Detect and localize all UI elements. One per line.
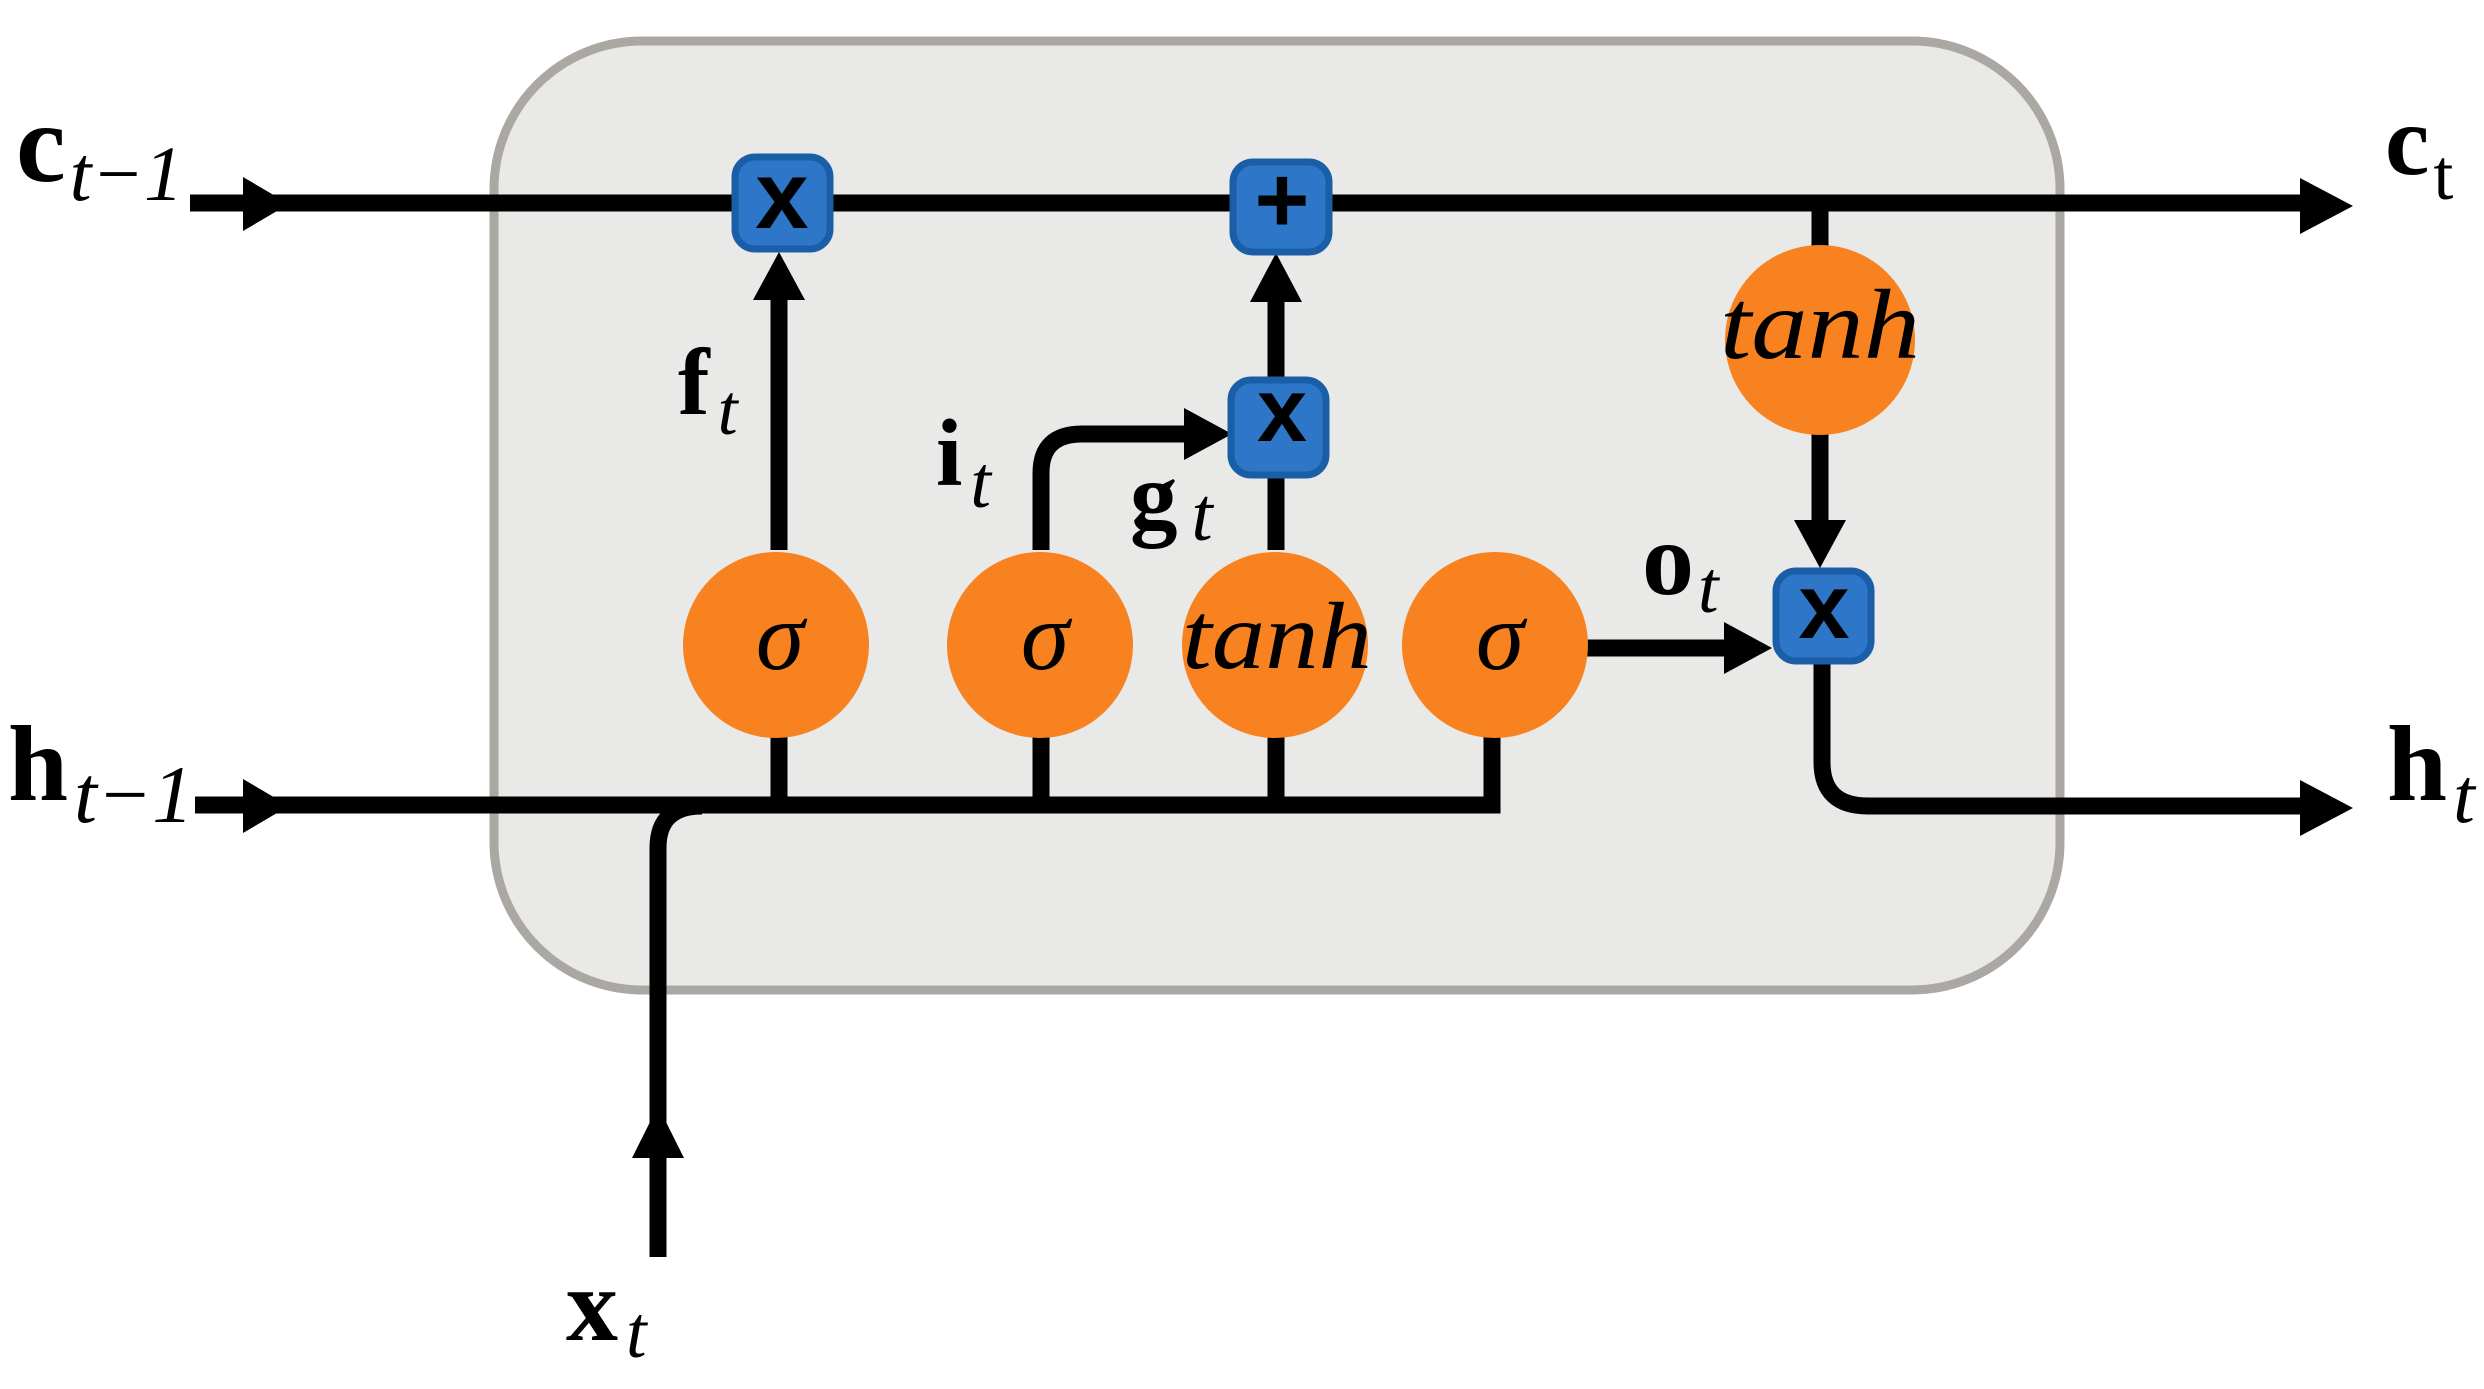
sigma gate 2 (input)	[947, 552, 1133, 738]
svg-text:tanh: tanh	[1720, 269, 1920, 380]
arrowhead c_t output	[2300, 178, 2353, 234]
wire big tanh down to X4	[1812, 433, 1829, 521]
wire X4 down, curve right, h_t output	[1822, 661, 2306, 806]
wire X2 up to plus	[1268, 302, 1285, 380]
svg-text:σ: σ	[756, 583, 808, 691]
tanh gate (candidate)	[1182, 552, 1372, 738]
arrowhead x_t (pointing up)	[632, 1106, 684, 1158]
arrowhead o_t into X4	[1724, 622, 1772, 674]
arrowhead f_t into X1	[753, 252, 805, 300]
multiply gate X2 (input)	[1231, 361, 1326, 475]
wire h (hidden state line, bottom)	[195, 736, 1492, 805]
svg-text:x: x	[755, 142, 808, 249]
svg-text:x: x	[1798, 556, 1849, 658]
svg-text:σ: σ	[1021, 583, 1073, 691]
svg-text:tanh: tanh	[1182, 583, 1372, 689]
LSTM cell body (rounded rect)	[494, 41, 2060, 990]
wire sigma2 to h line	[1033, 736, 1050, 806]
svg-text:x: x	[1257, 361, 1307, 461]
wire g_t (tanh gate up to X2)	[1268, 477, 1285, 550]
arrowhead c input	[243, 177, 289, 231]
wire o_t (sigma4 right to X4)	[1586, 640, 1724, 657]
wire tanh gate to h line	[1268, 736, 1285, 806]
svg-text:+: +	[1255, 147, 1310, 252]
sigma gate 3 (output)	[1402, 552, 1588, 738]
wire c line down to big tanh	[1812, 203, 1829, 252]
wire x_t input (curves into h line)	[658, 806, 702, 1257]
wire sigma1 to h line	[771, 736, 788, 806]
svg-text:σ: σ	[1476, 583, 1528, 691]
sigma gate 1 (forget)	[683, 552, 869, 738]
arrowhead into plus	[1250, 253, 1302, 302]
wire i_t (sigma2 up, curve right into X2)	[1041, 434, 1186, 550]
wire f_t (sigma1 up to X1)	[771, 292, 788, 550]
add gate PLUS	[1233, 147, 1329, 252]
arrowhead i_t into X2	[1184, 408, 1232, 460]
arrowhead into X4 (pointing down)	[1794, 520, 1846, 568]
big tanh circle (cell output activation)	[1720, 245, 1920, 435]
wire c (cell state line, top)	[190, 195, 2306, 212]
multiply gate X4 (output)	[1776, 556, 1871, 661]
arrowhead h input	[243, 779, 289, 833]
arrowhead h_t output	[2300, 780, 2353, 836]
multiply gate X1 (forget)	[735, 142, 830, 249]
